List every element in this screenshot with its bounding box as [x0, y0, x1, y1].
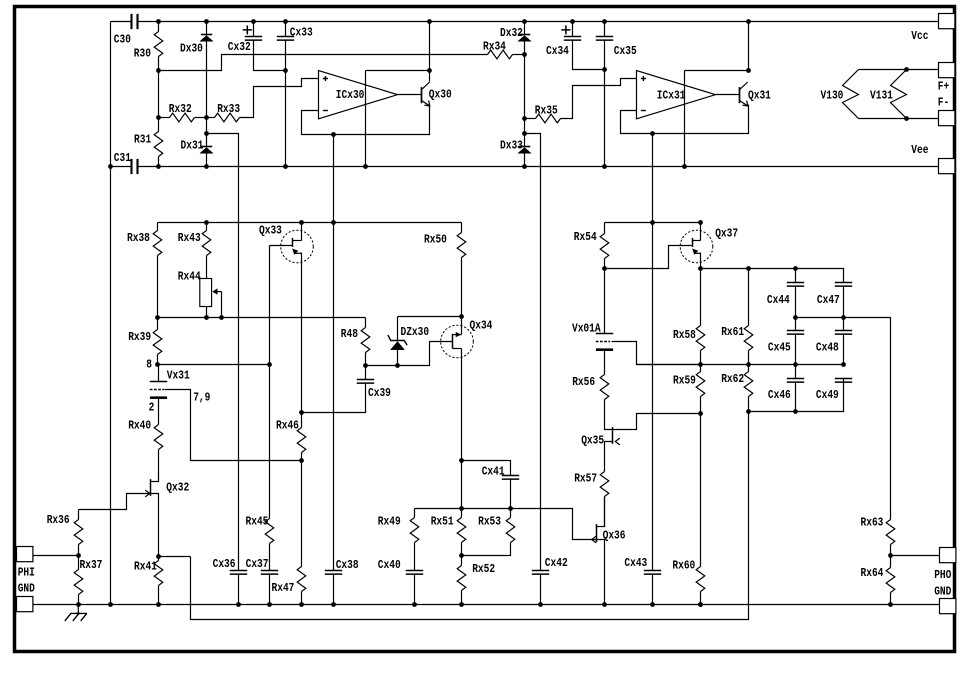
node Rx46 top	[299, 410, 304, 415]
junction Rx52 GND rail	[459, 602, 464, 607]
svg-text:2: 2	[149, 402, 155, 415]
svg-text:Rx56: Rx56	[572, 376, 595, 389]
svg-text:GND: GND	[934, 586, 951, 599]
resistor Rx36	[78, 510, 80, 520]
svg-text:Rx41: Rx41	[134, 561, 157, 574]
junction Cx47/Cx48	[841, 315, 846, 320]
svg-text:Rx33: Rx33	[217, 103, 240, 116]
svg-text:Rx37: Rx37	[80, 559, 103, 572]
wire ICx31 supply line x684.4	[684, 71, 686, 167]
resistor Rx33	[207, 117, 215, 119]
svg-text:Rx35: Rx35	[535, 105, 558, 118]
capacitor C31	[132, 159, 138, 174]
junction Qx37 drain	[698, 220, 703, 225]
junction Rx43 top	[204, 220, 209, 225]
wire Qx37 source down	[700, 253, 702, 269]
svg-text:Rx46: Rx46	[276, 420, 299, 433]
svg-text:R31: R31	[134, 134, 151, 147]
wire ICx31 minus input feedback	[621, 105, 749, 134]
wire inner bottom return line	[191, 412, 749, 620]
svg-text:Rx49: Rx49	[378, 516, 401, 529]
svg-text:Vcc: Vcc	[911, 30, 928, 43]
wire Qx31 collector to Vcc	[748, 22, 750, 71]
resistor Rx34	[488, 50, 513, 59]
source V130	[843, 70, 859, 119]
junction Cx48/Cx49	[841, 362, 846, 367]
svg-text:F-: F-	[938, 97, 949, 110]
node V131 top	[906, 70, 908, 71]
capacitor Cx35	[604, 22, 606, 37]
node Rx59 bottom	[698, 411, 703, 416]
resistor Rx59	[700, 365, 702, 372]
wire top rail Vcc	[138, 21, 940, 23]
wire Qx30 collector lead	[429, 71, 431, 82]
junction Cx40 GND rail	[412, 602, 417, 607]
capacitor C30	[132, 14, 138, 29]
junction Rx44 wiper	[219, 315, 224, 320]
node PHI/Rx36/Rx37	[76, 553, 81, 558]
svg-text:Qx36: Qx36	[603, 530, 626, 543]
junction Rx51 top	[459, 506, 464, 511]
junction Qx30 top rail	[427, 19, 432, 24]
battery Vx01A	[604, 269, 606, 334]
svg-text:Cx39: Cx39	[368, 387, 391, 400]
svg-text:Cx37: Cx37	[246, 558, 269, 571]
wire Vee rail	[138, 166, 940, 168]
junction Cx38 GND rail	[331, 602, 336, 607]
svg-text:Cx32: Cx32	[228, 41, 251, 54]
pad Vee	[939, 159, 955, 174]
junction Qx36 GND rail	[602, 602, 607, 607]
resistor Rx47	[301, 461, 303, 567]
wire top rail left of C30	[111, 21, 132, 23]
node Rx58/Rx59	[698, 362, 703, 367]
junction x684.4 Vee rail	[682, 164, 687, 169]
svg-text:Cx46: Cx46	[768, 389, 791, 402]
junction Rx47 GND rail	[299, 602, 304, 607]
diode Dx31	[206, 118, 208, 147]
svg-text:Rx34: Rx34	[483, 41, 506, 54]
svg-text:Rx40: Rx40	[128, 420, 151, 433]
svg-text:DZx30: DZx30	[401, 326, 430, 339]
node Qx32 source	[156, 554, 161, 559]
svg-text:Rx44: Rx44	[178, 271, 201, 284]
capacitor Cx41	[502, 476, 519, 480]
wire Qx30 collector to Vcc	[429, 22, 431, 71]
junction x110.5 GND rail	[108, 602, 113, 607]
node Rx54 bottom	[602, 266, 607, 271]
wire Qx33 gate	[270, 245, 293, 247]
junction Qx33 drain	[299, 220, 304, 225]
node R48 bottom	[363, 363, 368, 368]
pad F-	[939, 111, 955, 126]
junction Cx33 top rail	[283, 19, 288, 24]
svg-text:Rx61: Rx61	[721, 326, 744, 339]
potentiometer Rx44	[200, 279, 212, 307]
resistor Rx61	[748, 269, 750, 326]
svg-text:Qx35: Qx35	[581, 435, 604, 448]
transistor Qx34	[461, 317, 463, 335]
wire Rx54 node to Qx37 gate staircase	[605, 246, 692, 269]
resistor R48	[365, 318, 367, 328]
svg-text:GND: GND	[18, 583, 35, 596]
wire x652.7 column down	[652, 134, 654, 571]
svg-text:V131: V131	[870, 90, 893, 103]
resistor Rx54	[604, 223, 606, 234]
node feedback to x652.7 column	[650, 131, 655, 136]
junction Dx32 top rail	[522, 19, 527, 24]
op-amp ICx31	[637, 71, 716, 119]
resistor Rx57	[600, 472, 609, 497]
svg-text:Cx48: Cx48	[816, 342, 839, 355]
junction Rx38/Rx39	[155, 315, 160, 320]
resistor R31	[158, 71, 160, 132]
junction Cx45/Cx46	[793, 362, 798, 367]
svg-text:Cx35: Cx35	[614, 45, 637, 58]
svg-text:Rx47: Rx47	[272, 582, 295, 595]
node Cx41 top	[459, 458, 464, 463]
wire Qx31 collector node	[685, 70, 749, 72]
resistor Rx64	[890, 556, 892, 568]
resistor Rx63	[886, 520, 895, 545]
node Dx33 top	[522, 131, 527, 136]
junction x333.4 y222	[331, 220, 336, 225]
capacitor Cx32	[253, 22, 255, 37]
svg-text:Cx43: Cx43	[624, 557, 647, 570]
capacitor Cx46	[787, 379, 804, 383]
ground symbol	[77, 604, 79, 613]
svg-text:Qx31: Qx31	[748, 90, 771, 103]
wire Qx33 source down	[301, 253, 303, 413]
svg-text:ICx31: ICx31	[657, 90, 686, 103]
resistor Rx37	[78, 556, 80, 570]
svg-text:Rx54: Rx54	[574, 231, 597, 244]
junction x652.7 y222	[650, 220, 655, 225]
junction node8 x269.8	[267, 362, 272, 367]
wire Qx34 source down	[461, 349, 463, 509]
wire R30 node to Rx34 staircase	[159, 55, 488, 71]
svg-text:Rx60: Rx60	[672, 560, 695, 573]
junction V131 top	[904, 67, 909, 72]
junction Cx32 top rail	[251, 19, 256, 24]
wire Cx43 bottom lead	[652, 574, 654, 605]
battery Vx31	[158, 365, 160, 382]
wire y411.7 net	[749, 379, 844, 412]
wire left vertical x=110.5	[110, 22, 112, 605]
svg-text:Cx47: Cx47	[817, 294, 840, 307]
svg-text:Cx36: Cx36	[213, 558, 236, 571]
pad GND right	[940, 599, 956, 614]
node Rx46 bottom	[299, 458, 304, 463]
junction x110.5 Vee rail	[108, 164, 113, 169]
transistor Qx30	[421, 87, 423, 103]
svg-text:Rx58: Rx58	[673, 329, 696, 342]
svg-text:Rx59: Rx59	[673, 375, 696, 388]
wire y317 node	[158, 317, 366, 319]
op-amp ICx30	[319, 71, 398, 119]
wire y268.9 net	[701, 269, 844, 283]
svg-text:Qx30: Qx30	[429, 89, 452, 102]
svg-text:Dx32: Dx32	[500, 27, 523, 40]
wire ICx30 minus input feedback	[302, 105, 430, 135]
resistor Rx62	[748, 365, 750, 372]
svg-text:Cx40: Cx40	[378, 559, 401, 572]
svg-text:Cx45: Cx45	[768, 342, 791, 355]
svg-text:C30: C30	[114, 34, 131, 47]
svg-text:V130: V130	[821, 90, 844, 103]
junction Cx35 top rail	[602, 19, 607, 24]
wire Dx33 node to Cx42 column	[525, 134, 541, 571]
junction Cx35 Vee rail	[602, 164, 607, 169]
junction Cx44/Cx45	[793, 315, 798, 320]
junction R31 Vee rail	[156, 164, 161, 169]
wire y508.3 net	[415, 509, 597, 540]
node Rx50 bottom / Qx34 drain	[459, 314, 464, 319]
capacitor Cx42	[532, 571, 549, 575]
pad F+	[939, 63, 955, 78]
junction Cx33 Vee rail	[283, 164, 288, 169]
junction Rx44 bottom	[204, 315, 209, 320]
wire Rx44 wiper arrow	[221, 292, 223, 318]
svg-text:Rx57: Rx57	[574, 473, 597, 486]
svg-text:Rx38: Rx38	[127, 232, 150, 245]
wire Qx32 gate staircase	[79, 494, 151, 510]
junction Cx37 GND rail	[267, 602, 272, 607]
pad PHI	[17, 547, 33, 562]
resistor Rx52	[461, 556, 463, 566]
svg-text:Vx01A: Vx01A	[572, 323, 601, 336]
resistor Rx32	[159, 117, 170, 119]
svg-text:C31: C31	[114, 152, 131, 165]
transistor Qx31	[739, 87, 741, 103]
zener DZx30	[397, 317, 399, 341]
diode Dx33	[519, 146, 530, 148]
svg-text:F+: F+	[938, 81, 949, 94]
resistor R30	[158, 22, 160, 32]
wire Qx30 collector node	[366, 70, 430, 72]
svg-text:Rx32: Rx32	[169, 103, 192, 116]
wire cap mid node to Rx63	[796, 318, 891, 520]
resistor Rx45	[265, 519, 274, 544]
svg-text:Rx64: Rx64	[861, 567, 884, 580]
wire F+ node	[859, 69, 939, 71]
wire y364.7 net	[637, 364, 844, 366]
node Rx63/Rx64/PHO	[888, 553, 893, 558]
svg-text:Dx31: Dx31	[181, 140, 204, 153]
junction Rx32 left	[156, 115, 161, 120]
wire PHI to node	[33, 555, 79, 557]
wire y222 net left	[158, 222, 462, 224]
resistor Rx35	[525, 118, 536, 120]
source V131	[891, 70, 907, 119]
capacitor Cx37	[261, 571, 278, 575]
resistor Rx50	[461, 223, 463, 233]
junction Rx37 GND rail	[76, 602, 81, 607]
junction Cx46 bottom	[793, 409, 798, 414]
svg-text:Cx34: Cx34	[546, 45, 569, 58]
svg-text:Rx43: Rx43	[178, 232, 201, 245]
node R30/R31	[156, 68, 161, 73]
svg-text:Cx44: Cx44	[767, 294, 790, 307]
node Qx37 source / Rx58 top	[698, 266, 703, 271]
svg-text:Rx62: Rx62	[721, 373, 744, 386]
diode Dx32	[524, 22, 526, 35]
diode Dx30	[206, 22, 208, 35]
capacitor Cx49	[835, 379, 852, 383]
node Qx30 collector	[427, 68, 432, 73]
resistor Rx56	[600, 375, 609, 400]
node Qx31 collector	[746, 68, 751, 73]
junction R30 top rail	[156, 19, 161, 24]
svg-text:Rx36: Rx36	[47, 514, 70, 527]
capacitor Cx44	[795, 269, 797, 283]
svg-text:Rx50: Rx50	[424, 234, 447, 247]
junction Dx33 Vee rail	[522, 164, 527, 169]
junction Rx61 bottom	[746, 362, 751, 367]
capacitor Cx40	[406, 571, 423, 575]
junction Cx32/Cx33	[283, 68, 288, 73]
wire PHO	[891, 555, 940, 557]
junction Cx42 GND rail	[538, 602, 543, 607]
resistor Rx38	[157, 223, 159, 231]
pad PHO	[940, 548, 956, 563]
svg-text:Cx38: Cx38	[336, 559, 359, 572]
junction Qx31 top rail	[746, 19, 751, 24]
junction Cx43 GND rail	[650, 602, 655, 607]
svg-text:PHO: PHO	[934, 569, 951, 582]
capacitor Cx43	[644, 571, 661, 575]
svg-text:R30: R30	[134, 48, 151, 61]
wire ICx31 output	[716, 94, 740, 96]
wire ICx30 supply line x365.6	[365, 71, 367, 167]
svg-text:Cx33: Cx33	[290, 27, 313, 40]
wire Rx45 to Cx37	[269, 544, 271, 571]
wire Cx41 branch	[462, 461, 511, 476]
wire Vx01A tap to Rx58 bottom node	[612, 342, 701, 365]
junction V131 bottom	[904, 116, 909, 121]
capacitor Cx33	[285, 22, 287, 37]
resistor Rx58	[700, 269, 702, 326]
capacitor Cx36	[230, 571, 247, 575]
wire Vee rail left of C31	[111, 166, 132, 168]
svg-text:ICx30: ICx30	[336, 89, 365, 102]
junction Dx30 top rail	[204, 19, 209, 24]
capacitor Cx47	[835, 283, 852, 287]
junction Rx60 GND rail	[698, 602, 703, 607]
transistor Qx32	[151, 478, 159, 482]
svg-text:Rx45: Rx45	[246, 516, 269, 529]
svg-text:Qx37: Qx37	[715, 228, 738, 241]
transistor Qx36	[597, 497, 605, 527]
resistor Rx39	[157, 318, 159, 330]
wire ICx30 output	[397, 94, 422, 96]
transistor Qx35	[605, 426, 613, 430]
resistor Rx40	[154, 425, 163, 450]
wire Dx31 node to Cx36 column	[207, 134, 239, 571]
svg-text:Cx42: Cx42	[545, 557, 568, 570]
svg-text:Qx33: Qx33	[259, 225, 282, 238]
svg-text:Dx30: Dx30	[180, 43, 203, 56]
node Rx62 bottom	[746, 409, 751, 414]
junction Dx31 Vee rail	[204, 164, 209, 169]
svg-text:Cx41: Cx41	[482, 466, 505, 479]
node DZx30 bottom	[395, 363, 400, 368]
svg-text:R48: R48	[341, 328, 358, 341]
svg-text:8: 8	[146, 359, 152, 372]
wire Cx42 bottom lead	[540, 574, 542, 605]
wire Cx38 bottom lead	[333, 575, 335, 605]
svg-text:7,9: 7,9	[193, 392, 210, 405]
junction Cx34/Cx35	[602, 67, 607, 72]
svg-text:Vee: Vee	[911, 144, 928, 157]
svg-text:Rx53: Rx53	[478, 516, 501, 529]
wire y222 net right	[605, 222, 701, 224]
resistor Rx46	[301, 413, 303, 428]
capacitor Cx39	[365, 366, 367, 380]
junction Rx59 GND rail	[698, 602, 703, 607]
node Dx31 top	[204, 131, 209, 136]
junction Cx41/Rx53	[508, 506, 513, 511]
svg-text:Rx51: Rx51	[431, 516, 454, 529]
svg-text:Cx49: Cx49	[816, 389, 839, 402]
wire Cx36 bottom lead	[238, 575, 240, 605]
wire Cx37 bottom lead	[269, 575, 271, 605]
capacitor Cx34	[572, 22, 574, 37]
resistor Rx49	[414, 509, 416, 518]
junction Cx36 GND rail	[236, 602, 241, 607]
wire x269.8 column upper	[269, 246, 271, 519]
wire zener top node	[398, 316, 462, 318]
svg-text:Rx63: Rx63	[861, 517, 884, 530]
wire x333 column down	[333, 135, 335, 571]
wire Qx35 gate staircase	[613, 414, 701, 430]
junction Rx64 GND rail	[888, 602, 893, 607]
node Rx35/Dx32	[522, 116, 527, 121]
resistor Rx60	[700, 414, 702, 567]
node Rx51/Rx52/Rx53	[459, 553, 464, 558]
wire GND rail	[33, 604, 940, 606]
pad GND left	[17, 597, 33, 612]
wire Vx31 tap to Rx46 bottom node	[165, 390, 302, 461]
wire zener node to Qx34 gate	[366, 342, 453, 366]
resistor Rx41	[158, 557, 160, 561]
svg-text:PHI: PHI	[18, 567, 35, 580]
junction Rx41 GND rail	[156, 602, 161, 607]
wire F- node	[859, 118, 939, 120]
wire node8 to Qx33 gate column	[158, 364, 270, 366]
junction Rx61 top	[746, 266, 751, 271]
pad Vcc	[939, 14, 955, 29]
svg-text:Vx31: Vx31	[167, 370, 190, 383]
svg-text:Qx32: Qx32	[166, 482, 189, 495]
svg-text:Dx33: Dx33	[500, 140, 523, 153]
junction Cx34 top rail	[570, 19, 575, 24]
capacitor Cx38	[325, 571, 342, 575]
svg-text:Qx34: Qx34	[470, 320, 493, 333]
resistor Rx51	[461, 509, 463, 518]
node feedback to x333 column	[331, 132, 336, 137]
resistor Rx53	[510, 509, 512, 518]
junction x365.6 Vee rail	[363, 164, 368, 169]
node Rx32/Rx33/Dx30	[204, 115, 209, 120]
junction Cx44 top	[793, 266, 798, 271]
svg-text:Rx39: Rx39	[128, 331, 151, 344]
node 8	[155, 362, 160, 367]
svg-text:Rx52: Rx52	[472, 563, 495, 576]
node Rx34/Dx32	[522, 52, 527, 57]
